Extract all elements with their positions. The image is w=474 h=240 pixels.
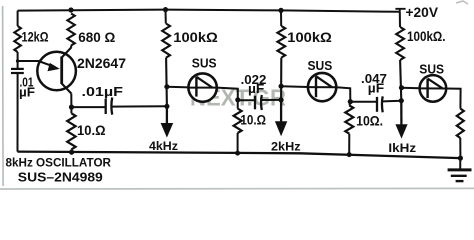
node bottom rail junction 1 <box>69 150 74 155</box>
SUS3 cathode bar <box>426 79 428 98</box>
svg-text:10.Ω: 10.Ω <box>77 122 106 138</box>
wire J1 to C3 <box>238 99 254 101</box>
ground <box>459 158 461 169</box>
scan border artifact left edge <box>2 6 5 186</box>
wire 12k to emitter node <box>17 52 19 68</box>
svg-text:100kΩ: 100kΩ <box>173 29 218 45</box>
wire C3 to stage2 node <box>262 99 281 101</box>
wire J2 to C4 <box>350 101 376 103</box>
svg-text:SUS: SUS <box>192 55 217 70</box>
node rail stage2 <box>278 8 283 13</box>
wire rail to 100k 1 <box>165 10 167 24</box>
node B3 <box>399 98 404 103</box>
node A1 <box>164 84 169 89</box>
wire node to C2 <box>72 106 106 108</box>
wire SUS3 cathode to load <box>446 89 461 109</box>
transistor Q1 base2 lead <box>62 48 71 58</box>
resistor 680 <box>67 14 74 46</box>
SUS2 cathode bar <box>315 76 317 97</box>
wire base1 to node <box>70 94 72 108</box>
node rail ground junction <box>458 156 463 161</box>
arrow output 1kHz <box>400 101 402 125</box>
svg-text:IkHz: IkHz <box>388 143 416 155</box>
SUS3 triangle <box>428 79 443 89</box>
wire emitter <box>18 60 40 62</box>
wire C1 to bottom rail <box>17 73 19 152</box>
svg-text:10.Ω: 10.Ω <box>240 111 266 127</box>
svg-text:.01µF: .01µF <box>82 85 124 99</box>
svg-text:680 Ω: 680 Ω <box>78 29 115 45</box>
node A2 <box>279 84 284 89</box>
wire node to 10 ohm <box>70 107 72 113</box>
transistor Q1 base1 lead <box>62 84 72 94</box>
SUS1 triangle <box>196 77 212 88</box>
resistor 10 ohm (oscillator) <box>67 113 75 149</box>
svg-text:µF: µF <box>19 86 35 100</box>
SUS1 circle <box>188 73 216 101</box>
arrow output 2kHz <box>280 100 282 122</box>
SUS3 internal wire <box>420 87 446 89</box>
svg-text:SUS: SUS <box>308 58 333 73</box>
resistor 12k <box>14 26 21 52</box>
capacitor C4 .047 plates <box>376 97 378 112</box>
wire C2 to stage1 node <box>112 105 167 107</box>
scan border artifact bottom edge <box>0 187 474 190</box>
wire 10ohm3 to rail <box>348 134 350 155</box>
capacitor C3 .022 plates <box>254 96 256 110</box>
SUS1 internal wire <box>189 87 217 89</box>
resistor 100k 1 <box>162 24 170 58</box>
wire rail to 100k 2 <box>280 10 282 26</box>
node J2 <box>348 99 353 104</box>
wire A2 to SUS2 <box>281 85 308 88</box>
SUS2 internal wire <box>308 86 336 88</box>
arrow output 4kHz <box>166 106 168 124</box>
node B1 junction <box>69 105 74 110</box>
transistor Q1 base bar <box>60 57 63 85</box>
resistor 10 ohm stage1 <box>234 109 242 134</box>
scan artifact top right corner <box>456 1 468 4</box>
resistor 100k 3 <box>396 27 404 60</box>
+20V terminal tick <box>395 9 405 12</box>
resistor 100k 2 <box>277 26 285 58</box>
svg-text:2N2647: 2N2647 <box>77 56 126 71</box>
transistor Q1 2N2647 circle <box>37 52 76 91</box>
node 680 top <box>68 7 73 12</box>
svg-text:4kHz: 4kHz <box>149 141 178 153</box>
svg-text:+20V: +20V <box>406 5 439 20</box>
capacitor C2 .01uF plates <box>105 99 107 114</box>
wire SUS2 cathode <box>336 87 350 101</box>
svg-text:100kΩ.: 100kΩ. <box>407 29 446 44</box>
svg-text:SUS–2N4989: SUS–2N4989 <box>18 170 103 184</box>
svg-text:100kΩ: 100kΩ <box>287 29 332 45</box>
svg-text:10Ω.: 10Ω. <box>356 112 383 128</box>
svg-text:12kΩ: 12kΩ <box>22 28 49 44</box>
wire 100k to node A1 <box>165 58 168 107</box>
node A3 <box>399 85 404 90</box>
node B1b <box>164 104 169 109</box>
SUS3 circle <box>420 75 447 102</box>
wire C4 to stage3 node <box>383 100 401 103</box>
node J1 <box>235 97 240 102</box>
wire A1 to SUS1 <box>167 86 189 89</box>
resistor load <box>457 109 464 139</box>
svg-text:SUS: SUS <box>419 61 444 76</box>
wire SUS1 cathode <box>217 88 238 100</box>
wire 10ohm2 to rail <box>237 133 239 153</box>
SUS2 triangle <box>316 76 332 87</box>
wire 100k3 to node B3 <box>400 60 401 101</box>
capacitor C1 .01uF plates <box>11 68 24 70</box>
wire load to rail <box>459 138 461 158</box>
svg-text:µF: µF <box>368 81 385 95</box>
svg-text:8kHz OSCILLATOR: 8kHz OSCILLATOR <box>6 157 112 169</box>
node emitter junction <box>16 59 19 62</box>
wire A3 to SUS3 <box>402 87 421 90</box>
wire 680 to base2 <box>70 46 72 48</box>
SUS2 circle <box>308 73 336 101</box>
wire 100k2 to node B2 <box>280 58 282 100</box>
resistor 10 ohm stage2 <box>345 105 353 133</box>
transistor Q1 emitter arrow <box>39 61 54 66</box>
svg-text:µF: µF <box>248 82 265 96</box>
wire J2 to 10ohm3 <box>349 102 352 106</box>
SUS1 cathode bar <box>195 77 197 97</box>
wire 10 ohm to bottom rail <box>70 149 72 152</box>
svg-text:2kHz: 2kHz <box>271 142 301 154</box>
node rail stage1 <box>163 7 168 12</box>
wire bottom ground rail <box>17 152 460 159</box>
wire left vertical from rail <box>17 11 19 26</box>
wire J1 to 10ohm2 <box>237 100 239 109</box>
wire top +20V rail <box>18 10 400 12</box>
wire rail corner to 100k 3 <box>399 12 401 27</box>
node B2 <box>279 97 284 102</box>
